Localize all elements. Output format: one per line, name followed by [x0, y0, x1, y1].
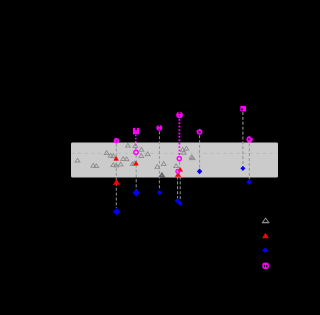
- gray triangle 4: [104, 151, 109, 155]
- vertical dashed line x=159: [158, 131, 160, 190]
- magenta marker M5: [197, 129, 203, 135]
- gray triangle 16: [139, 154, 144, 158]
- gray triangle 25: [189, 155, 194, 159]
- magenta marker M2: [133, 128, 139, 134]
- magenta donut D2: [177, 157, 181, 161]
- gray triangle 1: [75, 158, 80, 162]
- gray triangle 8: [124, 157, 129, 161]
- vertical dashed line x=199.6: [199, 135, 201, 168]
- magenta donut D1: [134, 150, 138, 154]
- vertical dashed line x=179.5 short: [179, 162, 181, 174]
- gray triangle 19: [161, 162, 166, 166]
- blue diamond B6: [178, 201, 183, 206]
- blue diamond B5: [175, 198, 180, 203]
- blue diamond B3: [246, 179, 251, 185]
- blue diamond B2: [240, 166, 245, 171]
- gray triangle 17: [145, 152, 150, 156]
- legend blue diamond: [262, 248, 268, 253]
- legend gray triangle: [262, 218, 269, 223]
- gray triangle 13: [130, 162, 135, 166]
- blue diamond B1: [197, 169, 202, 175]
- legend magenta marker: [262, 263, 269, 269]
- vertical dashed line x=249.3: [248, 143, 250, 179]
- vertical dashed line x=177.6: [177, 177, 179, 199]
- magenta dotted line x=179.4: [178, 119, 180, 156]
- gray triangle 9: [111, 163, 116, 167]
- gray triangle 15: [139, 147, 144, 151]
- magenta marker M7: [246, 136, 252, 142]
- gray triangle 6: [111, 154, 116, 158]
- gray triangle 7: [121, 157, 126, 161]
- magenta dotted line x=135.8: [135, 135, 137, 150]
- horizontal dashed reference line: [72, 152, 278, 154]
- red triangle R4: [175, 172, 181, 177]
- gray triangle 5: [108, 153, 113, 157]
- magenta marker M1: [114, 138, 120, 144]
- blue diamond B7: [113, 208, 120, 215]
- gray triangle 24: [181, 150, 186, 154]
- gray triangle 3: [94, 164, 99, 168]
- blue diamond B8: [133, 189, 140, 196]
- gray triangle 23: [184, 146, 189, 150]
- red triangle R5 below band: [113, 179, 120, 185]
- gray triangle 11: [118, 162, 123, 166]
- habitable zone band: [71, 143, 278, 178]
- magenta marker M3: [156, 125, 162, 131]
- gray triangle 18: [155, 165, 160, 169]
- vertical dashed line x=116: [115, 144, 117, 208]
- gray triangle 10: [114, 163, 119, 167]
- gray triangle 26: [190, 156, 195, 160]
- magenta marker M6: [240, 106, 246, 112]
- vertical dashed line x=136: [135, 155, 137, 190]
- vertical dashed line x=180.2: [179, 177, 181, 201]
- gray triangle 21: [174, 164, 179, 168]
- magenta marker M4: [176, 112, 183, 119]
- red triangle R2: [133, 161, 139, 166]
- gray triangle 2: [91, 163, 96, 167]
- blue diamond B4: [157, 190, 162, 195]
- gray triangle 13b: [132, 161, 137, 165]
- gray triangle 22: [180, 148, 185, 152]
- legend red triangle: [262, 233, 269, 239]
- magenta donut D3: [176, 170, 180, 174]
- gray triangle 12: [126, 143, 131, 147]
- red triangle R1: [113, 156, 119, 161]
- gray triangle 20 dark: [159, 173, 164, 177]
- gray triangle 14: [133, 144, 138, 148]
- vertical dashed line x=242.9: [242, 112, 244, 166]
- red triangle R3: [177, 167, 183, 172]
